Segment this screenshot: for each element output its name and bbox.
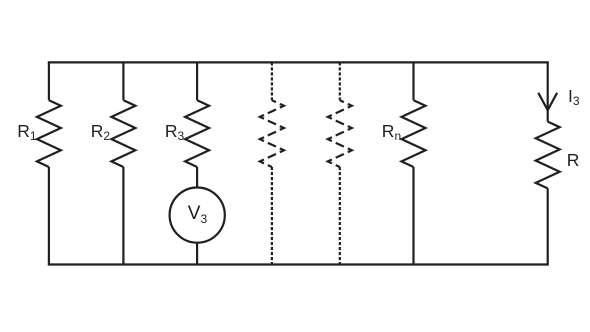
label V3 xyxy=(188,204,207,223)
label R3 xyxy=(165,123,184,141)
label Rn xyxy=(382,123,401,141)
wire R1 bottom lead xyxy=(48,167,50,265)
wire R3 top lead xyxy=(196,62,198,100)
resistor dashed 2 xyxy=(328,100,352,167)
label R1 xyxy=(17,123,36,141)
current arrow I3 xyxy=(538,93,557,110)
wire R2 top lead xyxy=(122,62,124,100)
voltage source V3 xyxy=(170,188,225,243)
wire dashed branch 1 top lead xyxy=(271,62,273,100)
wire V3 to bottom bus xyxy=(196,243,198,264)
wire R2 bottom lead xyxy=(122,167,124,265)
resistor R2 xyxy=(111,100,135,167)
label I3 xyxy=(568,88,580,106)
resistor R3 xyxy=(185,100,209,167)
wire dashed branch 2 top lead xyxy=(339,62,341,100)
wire top bus xyxy=(49,61,548,63)
resistor dashed 1 xyxy=(260,100,284,167)
wire Rn top lead xyxy=(412,62,414,100)
label R (right) xyxy=(567,152,580,170)
wire dashed branch 1 bottom lead xyxy=(271,167,273,265)
wire R (right branch) bottom lead xyxy=(547,188,549,264)
wire bottom bus xyxy=(49,263,548,265)
wire R1 top lead xyxy=(48,62,50,100)
resistor Rn xyxy=(402,100,426,167)
wire R3 to V3 xyxy=(196,167,198,187)
wire dashed branch 2 bottom lead xyxy=(339,167,341,265)
wire Rn bottom lead xyxy=(412,167,414,265)
wire R (right branch) top lead xyxy=(547,62,549,121)
resistor R (right branch) xyxy=(536,122,560,189)
label R2 xyxy=(91,123,110,141)
resistor R1 xyxy=(37,100,61,167)
